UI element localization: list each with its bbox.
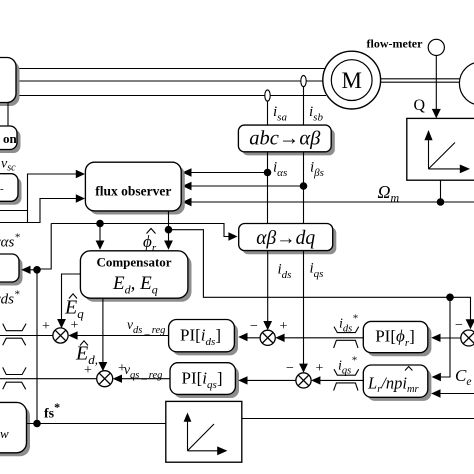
- sum v_ds (E_q + v_ds_reg): [53, 328, 68, 343]
- wire three-phase line b: [16, 80, 326, 82]
- node theta to compensator: [96, 220, 104, 228]
- DA boundary symbol on i_ds* wire: [334, 327, 359, 348]
- svg-text:−: −: [250, 319, 258, 334]
- svg-text:+: +: [71, 318, 79, 333]
- wire i_ds down into sum: [267, 251, 269, 327]
- wire v_ds_reg from PI to sum: [72, 335, 169, 337]
- wire E_d output from compensator bottom: [102, 298, 104, 367]
- alpha-beta to dq transform block: [239, 224, 337, 255]
- PI phi_r regulator box: [363, 321, 431, 356]
- wire i_qs* from Lr block into sum: [315, 379, 363, 381]
- wire i_qs sum output into PI: [242, 379, 296, 381]
- svg-text:abc→αβ: abc→αβ: [249, 128, 321, 150]
- wire Omega_m speed line: [186, 201, 474, 203]
- wire v_qs* output to left: [0, 378, 97, 380]
- svg-text:w: w: [0, 426, 9, 441]
- Q characteristic block: [407, 118, 474, 180]
- motor M: [323, 51, 381, 109]
- wire i_ds* from PI phi into sum: [279, 337, 363, 339]
- wire theta down to fs line: [36, 270, 38, 424]
- wire phi_r down to Lr block input: [435, 297, 450, 377]
- wire phi_r to flux sum: [450, 297, 471, 324]
- node phi_r to Lr block: [446, 294, 454, 302]
- wire E_q output from compensator left: [62, 274, 81, 324]
- wire v_ds* output to left: [0, 335, 53, 337]
- Lr/np i_mr block: [363, 365, 431, 401]
- svg-text:-: -: [0, 183, 4, 195]
- wire v_alpha input to flux observer: [0, 174, 81, 211]
- wire i_alpha down: [267, 152, 269, 224]
- wire i_qs down into sum: [303, 251, 305, 369]
- svg-text:αβ→dq: αβ→dq: [256, 228, 315, 249]
- node theta to v box: [33, 266, 41, 274]
- svg-text:−: −: [286, 361, 294, 376]
- inverter box (cut at left edge): [0, 58, 20, 107]
- wire inverter to modulation box: [7, 103, 9, 127]
- wire fs* line: [27, 423, 166, 425]
- pump circle (cut at right edge): [459, 62, 474, 105]
- DA boundary symbol on i_qs* wire: [334, 369, 359, 390]
- v_sc source box (cut): [0, 174, 22, 205]
- svg-text:on: on: [3, 131, 18, 146]
- svg-text:−: −: [455, 318, 463, 333]
- svg-text:Q: Q: [414, 97, 426, 114]
- DA boundary symbol on v_qs* wire: [3, 367, 26, 389]
- svg-text:flow-meter: flow-meter: [367, 37, 424, 51]
- wire theta distribution vertical: [37, 224, 51, 270]
- DA boundary symbol on v_ds* wire: [3, 324, 26, 346]
- wire three-phase line a: [16, 68, 326, 70]
- flux observer block: [85, 162, 184, 214]
- wire i_ds sum output into PI: [242, 337, 260, 339]
- svg-text:flux observer: flux observer: [95, 184, 171, 199]
- ramp block fs: [166, 401, 242, 462]
- current sensor i_sa: [265, 90, 270, 101]
- wire i_sa down to abc block: [267, 101, 269, 125]
- modulation box (cut, text "on"): [0, 126, 21, 153]
- wire flux observer phi_r output down: [168, 211, 170, 246]
- PWM generator box (cut at left): [0, 402, 30, 456]
- wire C_e* torque input: [435, 393, 474, 395]
- wire phi_r feedback path: [169, 230, 451, 298]
- wire ramp output right: [242, 418, 474, 420]
- sum phi error: [461, 330, 474, 346]
- wire v_qs_reg from PI to sum: [116, 378, 170, 380]
- wire i_sb down to abc block: [303, 87, 305, 126]
- label phi_r hat: [143, 229, 157, 255]
- node i_beta tap: [300, 182, 308, 190]
- shaft double line: [381, 78, 460, 80]
- wire i_beta down: [303, 152, 305, 224]
- wire three-phase line c: [16, 95, 326, 97]
- svg-text:Compensator: Compensator: [96, 255, 171, 270]
- current sensor i_sb: [301, 75, 306, 86]
- wire v_beta input to flux observer: [0, 199, 81, 223]
- wire theta into dq block: [51, 224, 233, 237]
- svg-text:+: +: [84, 363, 92, 378]
- node fs* junction: [33, 420, 41, 428]
- wire arrow into v box: [25, 269, 37, 271]
- flow-meter sensor circle: [428, 39, 444, 55]
- PI i_qs regulator box: [170, 363, 239, 398]
- compensator block: [80, 251, 191, 302]
- svg-text:+: +: [42, 319, 50, 334]
- wire Q block to Omega line: [440, 180, 442, 202]
- svg-text:+: +: [316, 361, 324, 376]
- wire theta into compensator: [99, 224, 101, 246]
- node phi_r junction: [165, 226, 173, 234]
- wire flow-meter to Q block: [435, 56, 437, 113]
- dq voltage reference box (cut at left): [0, 254, 23, 286]
- node on Omega_m line: [437, 198, 445, 206]
- sum v_qs (E_d + v_qs_reg): [97, 371, 113, 387]
- wire phi sum output into PI phi: [435, 337, 461, 339]
- PI i_ds regulator box: [169, 320, 238, 356]
- abc to alpha-beta transform block: [238, 125, 334, 155]
- sum i_qs error: [296, 373, 311, 388]
- wire i_alpha to flux observer: [186, 172, 268, 174]
- node i_alpha tap: [264, 169, 272, 177]
- svg-text:M: M: [341, 68, 361, 93]
- wire i_beta to flux observer: [186, 185, 304, 187]
- svg-text:Ed, Eq: Ed, Eq: [112, 273, 158, 297]
- sum i_ds error: [260, 330, 275, 345]
- svg-text:+: +: [280, 319, 288, 334]
- label E_q hat: [64, 294, 84, 321]
- label E_d hat: [75, 341, 98, 367]
